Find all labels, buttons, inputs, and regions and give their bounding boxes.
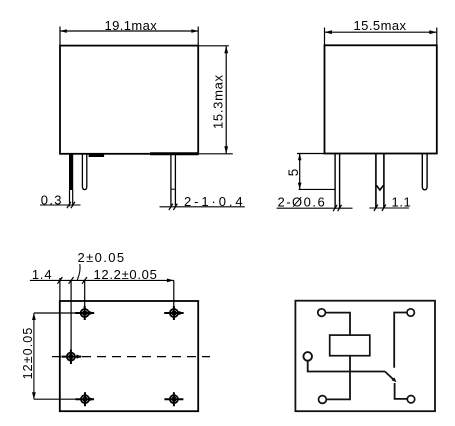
svg-text:5: 5	[286, 169, 301, 177]
wire coil bottom feed	[326, 356, 350, 400]
dimension line 5 vertical	[299, 154, 301, 190]
svg-text:1.4: 1.4	[32, 267, 52, 282]
pin circle coil bottom	[319, 396, 327, 404]
relay coil	[330, 335, 370, 356]
svg-text:2±0.05: 2±0.05	[78, 250, 126, 265]
pin 3 side (round pin rounded tip)	[422, 154, 427, 190]
svg-text:2-1·0.4: 2-1·0.4	[184, 194, 246, 209]
vertical dimension line 12+-0.05	[33, 313, 35, 399]
relay body side view outline	[325, 45, 437, 153]
schematic border	[295, 301, 435, 412]
hole H3	[67, 353, 75, 361]
extension line right (19.1max)	[197, 27, 199, 46]
wire NO contact	[395, 383, 408, 399]
extension line left (15.5max)	[324, 28, 326, 46]
svg-text:0.3: 0.3	[41, 192, 63, 207]
wire coil top feed	[325, 313, 350, 336]
dashed centre line	[52, 356, 210, 358]
svg-text:1.1: 1.1	[392, 194, 412, 209]
dimension line top (1.4 / 2 / 12.2)	[30, 279, 174, 281]
pcb layout outline	[60, 301, 198, 411]
leader line 2-1x0.4	[160, 206, 245, 208]
pin circle NC contact	[407, 309, 414, 316]
hole H2	[170, 309, 178, 317]
hole H4	[81, 395, 89, 403]
hole H5	[170, 395, 178, 403]
svg-text:12.2±0.05: 12.2±0.05	[94, 267, 158, 282]
pin circle coil top	[318, 309, 326, 317]
svg-text:12±0.05: 12±0.05	[21, 327, 35, 380]
dimension line 15.5max	[325, 31, 437, 33]
pin 2 front (round pin, rounded tip)	[82, 154, 86, 190]
svg-text:15.3max: 15.3max	[210, 74, 225, 129]
pin 2 side (wide 1.1 pin)	[375, 154, 377, 208]
extension verticals	[59, 278, 61, 301]
pin 3 front	[170, 155, 172, 206]
leader line 0.3	[40, 204, 81, 206]
leader line 1.1	[369, 207, 409, 209]
leader line 2-O0.6	[277, 207, 353, 209]
leader curve 2+-0.05	[77, 264, 80, 280]
svg-text:15.5max: 15.5max	[354, 18, 407, 33]
pin circle common	[303, 352, 312, 361]
wire NC contact	[394, 313, 407, 368]
extension line right (15.5max)	[436, 28, 438, 46]
svg-text:2-Ø0.6: 2-Ø0.6	[278, 195, 327, 210]
switch arm	[385, 372, 395, 381]
lower extension line of dim 5	[299, 188, 335, 190]
extension of body bottom to left (dim 5)	[297, 153, 325, 155]
wire common feed	[308, 361, 385, 372]
dimension line 19.1max	[60, 30, 198, 32]
extension line bottom-right (15.3max)	[198, 153, 233, 155]
extension line top-right (15.3max)	[198, 45, 229, 47]
extension row top holes	[34, 312, 94, 314]
pin 1 side	[334, 154, 336, 208]
base bump tab	[89, 154, 105, 157]
thick bottom-edge segment right side	[150, 152, 198, 155]
extension line left (19.1max)	[59, 27, 61, 46]
pin circle NO contact	[407, 396, 414, 403]
extension row bottom holes	[34, 398, 94, 400]
pin 1 front (flat 0.3 pin)	[69, 154, 73, 190]
relay body front view outline	[60, 46, 198, 154]
hole H1	[81, 309, 89, 317]
dimension line 15.3max vertical	[225, 46, 227, 154]
svg-text:19.1max: 19.1max	[105, 18, 158, 33]
